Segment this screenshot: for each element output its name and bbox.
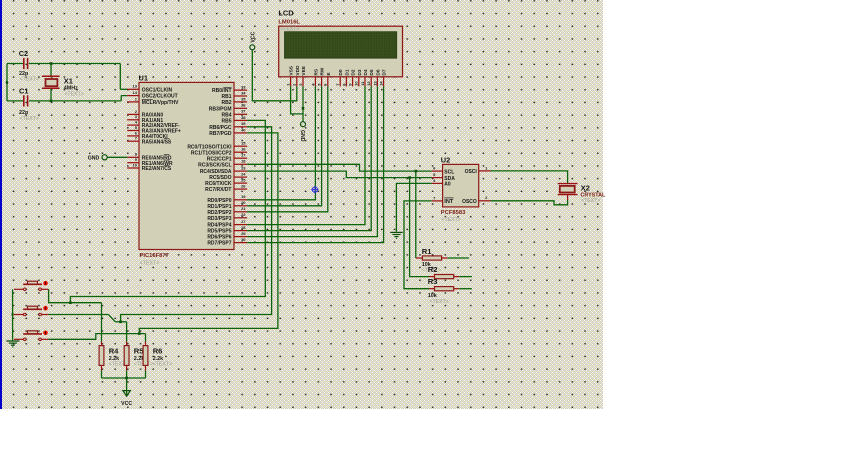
svg-text:29: 29 bbox=[241, 231, 246, 236]
wire SW2 branch to RB6 bbox=[121, 127, 272, 322]
U2 pin 1 OSCI bbox=[465, 165, 491, 175]
svg-text:INT: INT bbox=[444, 199, 454, 205]
wire U2 A0 to ground bbox=[396, 183, 431, 231]
svg-text:36: 36 bbox=[241, 103, 246, 108]
U2 pin 4 A0 bbox=[432, 178, 451, 188]
lcd LCD1 LM016L bbox=[278, 9, 402, 77]
svg-text:<TEXT>: <TEXT> bbox=[20, 116, 39, 122]
svg-text:14: 14 bbox=[379, 81, 384, 86]
junction SDA pullup bbox=[408, 176, 411, 179]
svg-text:GND: GND bbox=[299, 130, 305, 142]
wire C2 to OSC1 bbox=[7, 64, 127, 90]
U2 pin 7 INT bbox=[432, 195, 454, 205]
resistor R1 10k bbox=[416, 247, 448, 274]
svg-text:4MHz: 4MHz bbox=[64, 85, 78, 91]
svg-text:VCC: VCC bbox=[121, 401, 132, 407]
svg-text:VEE: VEE bbox=[301, 65, 307, 75]
wire R6 top bbox=[145, 334, 147, 342]
svg-text:D0: D0 bbox=[338, 69, 344, 75]
svg-text:RW: RW bbox=[320, 67, 326, 75]
svg-text:<TEXT>: <TEXT> bbox=[430, 299, 449, 305]
U1 pin 27 RD4/PSP4 bbox=[207, 219, 247, 229]
wire LCD D6 to RD6 bbox=[247, 86, 377, 236]
LCD pin 9 D2 bbox=[348, 69, 357, 86]
svg-text:OSC1/CLKIN: OSC1/CLKIN bbox=[142, 87, 173, 93]
svg-text:13: 13 bbox=[372, 81, 377, 86]
wire R5 top bbox=[126, 322, 128, 342]
svg-text:<TEXT>: <TEXT> bbox=[581, 198, 600, 204]
svg-text:34: 34 bbox=[241, 90, 246, 95]
capacitor C1 bbox=[19, 87, 39, 122]
svg-text:21: 21 bbox=[241, 206, 246, 211]
svg-text:33: 33 bbox=[241, 85, 246, 90]
svg-text:<TEXT>: <TEXT> bbox=[281, 26, 300, 32]
U1 pin 34 RB1 bbox=[221, 90, 247, 100]
wire VCC to LCD VDD bbox=[252, 50, 296, 101]
U1 pin 38 RB5 bbox=[221, 115, 247, 125]
svg-text:D2: D2 bbox=[351, 69, 357, 75]
wire LCD RW to RD1 bbox=[247, 86, 322, 205]
U1 pin 35 RB2 bbox=[221, 96, 247, 106]
LCD pin 2 VDD bbox=[292, 65, 301, 86]
svg-text:R1: R1 bbox=[422, 247, 432, 256]
wire LCD D4 to RD4 bbox=[247, 86, 365, 224]
U2 pin 5 SDA bbox=[432, 172, 456, 182]
wire SDA pullup to R2 bbox=[410, 178, 429, 277]
svg-text:30: 30 bbox=[241, 237, 246, 242]
svg-text:RB7/PGD: RB7/PGD bbox=[209, 131, 232, 137]
svg-text:D7: D7 bbox=[382, 69, 388, 75]
origin marker (blue crosshair) bbox=[311, 186, 318, 193]
pushbutton SW1 bbox=[14, 281, 49, 291]
svg-text:28: 28 bbox=[241, 225, 246, 230]
pushbutton SW2 bbox=[14, 306, 49, 316]
U1 pin 22 RD3/PSP3 bbox=[207, 212, 247, 222]
svg-text:RC2/CCP1: RC2/CCP1 bbox=[207, 156, 232, 162]
U2 pin 6 SCL bbox=[432, 166, 455, 176]
wire U2 OSCI to X2 bbox=[491, 171, 568, 183]
svg-text:RB6/PGC: RB6/PGC bbox=[209, 125, 232, 131]
wire LCD E to RD2 bbox=[247, 86, 328, 211]
svg-text:<TEXT>: <TEXT> bbox=[140, 260, 159, 266]
wire RC4/SDA to U2 SDA bbox=[247, 171, 432, 178]
svg-text:RE2/AN7/CS: RE2/AN7/CS bbox=[142, 166, 172, 172]
mcu U1 PIC16F877 bbox=[139, 74, 235, 267]
svg-text:18: 18 bbox=[241, 159, 246, 164]
crystal X2 bbox=[558, 184, 606, 205]
wire GND to RE0 bbox=[107, 156, 127, 158]
U1 pin 24 RC5/SDO bbox=[209, 172, 247, 182]
wire SW3 to R6 and RB7 bbox=[49, 334, 146, 340]
svg-text:D3: D3 bbox=[357, 69, 363, 75]
svg-text:10: 10 bbox=[354, 81, 359, 86]
svg-text:13: 13 bbox=[133, 84, 138, 89]
resistor R3 10k bbox=[428, 277, 459, 305]
wire resistor bottom rail bbox=[102, 371, 146, 378]
junction SW3 branch bbox=[138, 332, 141, 335]
crystal X1 bbox=[42, 64, 84, 101]
wire C1 to OSC2 bbox=[7, 96, 127, 101]
power terminal VCC (bottom) bbox=[121, 378, 132, 407]
LCD pin 11 D4 bbox=[360, 69, 369, 86]
U1 pin 19 RD0/PSP0 bbox=[207, 194, 247, 204]
svg-text:OSCI: OSCI bbox=[465, 169, 478, 175]
svg-text:12: 12 bbox=[366, 81, 371, 86]
U1 pin 29 RD6/PSP6 bbox=[207, 231, 247, 241]
U1 pin 18 RC3/SCK/SCL bbox=[198, 159, 247, 169]
U1 pin 7 RA5/AN4/SS bbox=[127, 136, 172, 146]
svg-text:RB5: RB5 bbox=[221, 119, 231, 125]
junction SW2 branch bbox=[119, 321, 122, 324]
U1 pin 2 RA0/AN0 bbox=[127, 109, 163, 119]
LCD pin 8 D1 bbox=[341, 69, 350, 86]
svg-text:PCF8583: PCF8583 bbox=[441, 210, 466, 216]
wire button ground bus bbox=[12, 289, 14, 340]
svg-text:R2: R2 bbox=[428, 265, 438, 274]
svg-text:RB4: RB4 bbox=[221, 112, 231, 118]
LCD pin 5 RW bbox=[317, 67, 326, 86]
U1 pin 5 RA3/AN3/VREF+ bbox=[127, 125, 181, 135]
resistor R6 2.2k bbox=[143, 342, 172, 371]
U1 pin 30 RD7/PSP7 bbox=[207, 237, 247, 247]
svg-text:23: 23 bbox=[241, 166, 246, 171]
svg-text:38: 38 bbox=[241, 115, 246, 120]
svg-text:SCL: SCL bbox=[444, 169, 454, 175]
wire LCD D5 to RD5 bbox=[247, 86, 371, 230]
junction SCL pullup bbox=[415, 170, 418, 173]
U1 pin 28 RD5/PSP5 bbox=[207, 225, 247, 235]
U2 pin 2 OSCO bbox=[462, 195, 490, 205]
svg-text:22: 22 bbox=[241, 212, 246, 217]
ground terminal GND at RE0 bbox=[88, 155, 107, 162]
junction VEE bbox=[302, 107, 305, 110]
svg-text:15: 15 bbox=[241, 141, 246, 146]
U1 pin 16 RC1/T1OSI/CCP2 bbox=[191, 147, 247, 157]
wire SW3 branch to RB7 bbox=[139, 133, 278, 334]
resistor R5 2.2k bbox=[124, 342, 153, 371]
U1 pin 10 RE2/AN7/CS bbox=[127, 162, 172, 172]
junction rail VCC bbox=[125, 377, 128, 380]
svg-text:10: 10 bbox=[133, 162, 138, 167]
svg-text:OSC2/CLKOUT: OSC2/CLKOUT bbox=[142, 94, 178, 100]
LCD pin 12 D5 bbox=[366, 69, 375, 86]
svg-text:20: 20 bbox=[241, 200, 246, 205]
svg-text:VCC: VCC bbox=[251, 31, 257, 42]
svg-text:27: 27 bbox=[241, 219, 246, 224]
svg-text:A0: A0 bbox=[444, 182, 451, 188]
U1 pin 20 RD1/PSP1 bbox=[207, 200, 247, 210]
svg-text:RC3/SCK/SCL: RC3/SCK/SCL bbox=[198, 162, 231, 168]
svg-text:C1: C1 bbox=[19, 87, 28, 96]
svg-text:19: 19 bbox=[241, 194, 246, 199]
svg-text:RB2: RB2 bbox=[221, 100, 231, 106]
U1 pin 1 MCLR/Vpp/THV bbox=[127, 96, 179, 106]
svg-text:<TEXT>: <TEXT> bbox=[64, 92, 83, 98]
LCD pin 10 D3 bbox=[354, 69, 363, 86]
svg-text:D4: D4 bbox=[363, 69, 369, 75]
svg-text:RD7/PSP7: RD7/PSP7 bbox=[207, 241, 231, 247]
capacitor C2 bbox=[19, 49, 39, 82]
svg-text:U2: U2 bbox=[441, 155, 450, 164]
LCD pin 7 D0 bbox=[335, 69, 344, 86]
U1 pin 17 RC2/CCP1 bbox=[207, 153, 247, 163]
svg-text:<TEXT>: <TEXT> bbox=[442, 217, 461, 223]
svg-text:37: 37 bbox=[241, 109, 246, 114]
U1 pin 13 OSC1/CLKIN bbox=[127, 84, 172, 94]
wire U2 OSCO to X2 bbox=[491, 200, 568, 205]
wire R1 right bbox=[448, 257, 469, 259]
wire R2 right bbox=[459, 276, 472, 278]
svg-text:D1: D1 bbox=[344, 69, 350, 75]
U1 pin 40 RB7/PGD bbox=[209, 127, 247, 137]
junction bus SW2 bbox=[12, 313, 14, 315]
LCD pin 13 D6 bbox=[372, 69, 381, 86]
ground terminal GND (below LCD) bbox=[299, 122, 306, 142]
junction X1 top bbox=[50, 62, 53, 65]
U1 pin 3 RA1/AN1 bbox=[127, 114, 163, 124]
wire R4 top bbox=[101, 303, 103, 342]
svg-text:VSS: VSS bbox=[289, 65, 295, 75]
wire SW2 to R5 and RB6 bbox=[49, 315, 127, 322]
U1 pin 8 RE0/AN5/RD bbox=[127, 152, 172, 162]
wire left bus C2-C1 bbox=[6, 64, 8, 101]
U1 pin 39 RB6/PGC bbox=[209, 121, 247, 131]
wire LCD D7 to RD7 bbox=[247, 86, 384, 242]
U1 pin 9 RE1/AN6/WR bbox=[127, 157, 173, 167]
svg-text:LCD: LCD bbox=[278, 9, 294, 18]
U1 pin 37 RB4 bbox=[221, 109, 247, 119]
svg-text:17: 17 bbox=[241, 153, 246, 158]
svg-text:C2: C2 bbox=[19, 49, 28, 58]
svg-text:<TEXT>: <TEXT> bbox=[20, 77, 39, 83]
LCD pin 14 D7 bbox=[379, 69, 388, 86]
junction SW1 branch bbox=[69, 301, 72, 304]
svg-text:LM016L: LM016L bbox=[278, 19, 300, 25]
power terminal VCC (top) bbox=[250, 31, 257, 49]
resistor R2 10k bbox=[428, 265, 459, 279]
svg-text:R3: R3 bbox=[428, 277, 438, 286]
svg-text:R6: R6 bbox=[153, 346, 163, 355]
svg-text:25: 25 bbox=[241, 178, 246, 183]
svg-text:39: 39 bbox=[241, 121, 246, 126]
svg-text:<TEXT>: <TEXT> bbox=[153, 361, 172, 367]
junction on left bus bbox=[6, 81, 8, 83]
svg-text:GND: GND bbox=[88, 156, 100, 162]
svg-text:RC7/RX/DT: RC7/RX/DT bbox=[205, 187, 231, 193]
svg-text:40: 40 bbox=[241, 127, 246, 132]
LCD pin 4 RS bbox=[310, 68, 319, 86]
svg-text:U1: U1 bbox=[139, 74, 148, 83]
ground symbol (buttons) bbox=[6, 341, 19, 347]
svg-text:14: 14 bbox=[133, 90, 138, 95]
svg-text:RA5/AN4/SS: RA5/AN4/SS bbox=[142, 139, 172, 145]
U1 pin 21 RD2/PSP2 bbox=[207, 206, 247, 216]
wire LCD VSS down bbox=[291, 86, 303, 114]
svg-text:RS: RS bbox=[313, 68, 319, 75]
wire RC3/SCL to U2 SCL bbox=[247, 164, 432, 171]
pushbutton SW3 bbox=[14, 331, 49, 341]
svg-text:PIC16F877: PIC16F877 bbox=[140, 253, 169, 259]
U1 pin 26 RC7/RX/DT bbox=[205, 184, 247, 194]
U1 pin 33 RB0/INT bbox=[212, 85, 247, 95]
svg-text:D6: D6 bbox=[375, 69, 381, 75]
U1 pin 6 RA4/T0CKI bbox=[127, 130, 168, 140]
U1 pin 23 RC4/SDI/SDA bbox=[200, 166, 247, 176]
LCD pin 3 VEE bbox=[298, 65, 307, 86]
wire LCD VEE to GND bbox=[302, 86, 304, 121]
svg-text:RD3/PSP3: RD3/PSP3 bbox=[207, 216, 231, 222]
svg-text:26: 26 bbox=[241, 184, 246, 189]
wire SW1 branch to RB5 bbox=[70, 120, 265, 302]
resistor R4 2.2k bbox=[99, 342, 128, 371]
wire LCD RS to RD0 bbox=[247, 86, 315, 199]
wire SW1 to R4 and RB5 bbox=[49, 289, 102, 302]
svg-text:R4: R4 bbox=[109, 346, 119, 355]
wire R3 right bbox=[459, 288, 472, 290]
LCD pin 6 E bbox=[323, 72, 332, 87]
svg-text:D5: D5 bbox=[369, 69, 375, 75]
svg-text:MCLR/Vpp/THV: MCLR/Vpp/THV bbox=[142, 100, 179, 106]
svg-text:X1: X1 bbox=[64, 76, 73, 85]
junction X1 bottom bbox=[50, 100, 53, 103]
svg-text:X2: X2 bbox=[581, 184, 590, 193]
U1 pin 25 RC6/TX/CK bbox=[205, 178, 247, 188]
rtc U2 PCF8583 bbox=[441, 155, 479, 222]
svg-text:VDD: VDD bbox=[295, 65, 301, 76]
ground symbol (U2 A0) bbox=[390, 232, 403, 238]
U1 pin 4 RA2/AN2/VREF- bbox=[127, 120, 180, 130]
svg-text:35: 35 bbox=[241, 96, 246, 101]
svg-text:24: 24 bbox=[241, 172, 246, 177]
wire U2 INT to R3 bbox=[404, 201, 432, 289]
svg-text:OSCO: OSCO bbox=[462, 199, 477, 205]
U1 pin 15 RC0/T1OSO/T1CKI bbox=[187, 141, 247, 151]
LCD pin 1 VSS bbox=[286, 65, 295, 86]
U1 pin 14 OSC2/CLKOUT bbox=[127, 90, 177, 100]
U1 pin 36 RB3/PGM bbox=[209, 103, 247, 113]
svg-text:16: 16 bbox=[241, 147, 246, 152]
wire SCL pullup to R1 bbox=[415, 171, 417, 258]
